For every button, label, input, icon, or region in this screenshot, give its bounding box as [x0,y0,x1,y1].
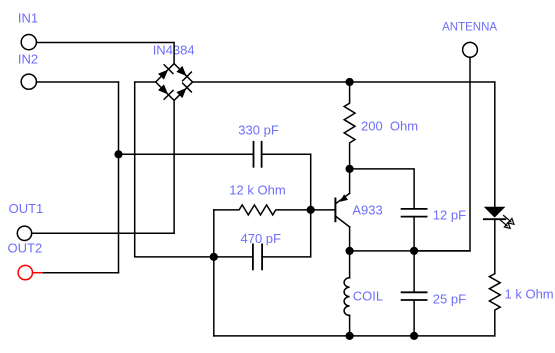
label OUT1 [9,201,44,216]
label OUT2 [8,240,43,255]
wire IN2 right [37,81,119,83]
label 25 pF [433,291,466,306]
junction dot 25pF bottom [410,332,418,340]
capacitor C 470pF [253,244,262,269]
svg-text:470 pF: 470 pF [241,231,282,246]
svg-text:12 pF: 12 pF [433,207,466,222]
terminal IN2 [21,74,36,89]
capacitor C 25pF [402,292,427,300]
svg-text:12 k Ohm: 12 k Ohm [229,182,285,197]
junction dot 12pF/25pF node [410,247,418,255]
wire collector row [350,250,470,252]
label IN2 [18,51,38,66]
LED light arrows [500,216,514,229]
wire 330pF row left [119,153,254,155]
capacitor C 330pF [254,142,262,167]
label 470 pF [241,231,282,246]
diode D4 bottom-right [176,83,191,98]
svg-text:IN2: IN2 [18,51,38,66]
svg-text:25 pF: 25 pF [433,291,466,306]
label COIL [353,289,383,304]
wire 25pF leads [413,251,415,292]
svg-text:COIL: COIL [353,289,383,304]
wire LED branch down [494,82,496,207]
LED D5 [484,207,506,274]
wire 470pF row right [262,210,311,257]
wire vertical IN2/OUT2 [118,82,120,273]
label 200 Ohm [361,118,418,133]
wire OUT2 red stub [33,272,44,274]
junction dot emitter node [346,165,354,173]
label 12 k Ohm [229,182,285,197]
resistor R 12k [214,205,311,215]
wire bridge left corner [135,82,214,257]
svg-text:IN1: IN1 [18,10,38,25]
wire bridge right to LED branch [193,81,495,83]
svg-text:ANTENNA: ANTENNA [442,22,497,34]
label 12 pF [433,207,466,222]
svg-text:A933: A933 [352,203,382,218]
transistor Q1 A933 [335,169,349,251]
svg-text:OUT2: OUT2 [8,240,43,255]
junction dot collector node [346,247,354,255]
diode D3 left-bottom [158,84,173,99]
wire 12k left leg down [213,210,215,336]
junction dot base node [307,206,315,214]
bridge diamond wires [156,64,193,101]
diode D1 left-top [158,65,173,80]
inductor COIL [344,251,350,336]
wire 470pF row left [214,256,253,258]
wire antenna down [414,57,470,251]
wire OUT2 row [44,272,119,274]
diode D2 top-right [176,66,191,81]
wire 12pF bottom lead [413,217,415,251]
terminal OUT2 [18,265,32,279]
label IN4384 [153,43,195,58]
wire IN1 to bridge top [37,43,175,64]
label ANTENNA [442,22,497,34]
svg-text:200 Ohm: 200 Ohm [361,118,418,133]
wire OUT1 row [32,232,174,234]
junction dot node IN2/330pF [114,150,122,158]
terminal OUT1 [17,226,31,240]
wire bridge bottom to OUT1 row [173,100,175,233]
capacitor C 12pF [402,209,427,217]
label 330 pF [238,122,279,137]
junction dot node 470pF left [210,253,218,261]
svg-text:OUT1: OUT1 [9,201,44,216]
terminal IN1 [21,35,36,50]
label IN1 [18,10,38,25]
junction dot 200ohm top [346,78,354,86]
wire bottom rail [214,335,495,337]
svg-text:1 k Ohm: 1 k Ohm [505,287,554,302]
resistor R 200 Ohm [344,82,355,169]
wire base lead [311,209,336,211]
label 1 k Ohm [505,287,554,302]
wire 330pF row right [262,154,311,210]
wire emitter row to 12pF [350,169,415,209]
junction dot coil bottom [346,332,354,340]
resistor R 1k [489,274,500,336]
svg-text:330 pF: 330 pF [238,122,279,137]
label A933 [352,203,382,218]
terminal ANTENNA [463,42,478,57]
